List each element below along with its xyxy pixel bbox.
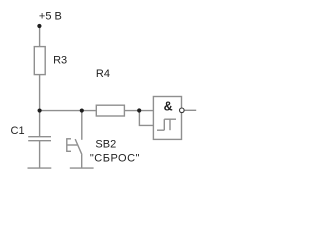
svg-text:R4: R4 bbox=[96, 68, 110, 80]
svg-text:+5 В: +5 В bbox=[39, 10, 62, 22]
wire node SB2 to switch bbox=[81, 111, 83, 140]
wire C1 to ground bbox=[39, 141, 41, 168]
ground SB2 bbox=[70, 167, 94, 169]
node A junction dot bbox=[38, 108, 42, 112]
wire +5V vertical to R3 bbox=[39, 26, 41, 47]
inversion bubble bbox=[180, 108, 185, 113]
switch SB2 bbox=[66, 139, 82, 155]
wire switch to ground bbox=[81, 155, 83, 168]
resistor R4 bbox=[96, 105, 124, 116]
svg-text:R3: R3 bbox=[53, 54, 67, 66]
node +5V junction dot bbox=[37, 24, 41, 28]
svg-text:SB2: SB2 bbox=[95, 138, 116, 150]
capacitor C1 bbox=[28, 137, 51, 141]
resistor R3 bbox=[34, 47, 45, 75]
svg-text:C1: C1 bbox=[11, 125, 25, 137]
svg-text:&: & bbox=[164, 100, 173, 114]
wire R4 to gate input 1 bbox=[124, 110, 153, 112]
logic gate U1 body bbox=[153, 97, 181, 140]
wire gate output bbox=[185, 109, 197, 111]
wire node A to R4 bbox=[40, 110, 97, 112]
node SB2 junction dot bbox=[80, 108, 84, 112]
node B junction dot bbox=[137, 108, 141, 112]
schmitt hysteresis symbol bbox=[157, 119, 176, 130]
svg-text:"СБРОС": "СБРОС" bbox=[90, 152, 140, 164]
wire node B to gate input 2 bbox=[139, 111, 153, 126]
wire node A to C1 bbox=[39, 111, 41, 137]
wire R3 to node A bbox=[39, 75, 41, 111]
ground C1 bbox=[28, 167, 52, 169]
